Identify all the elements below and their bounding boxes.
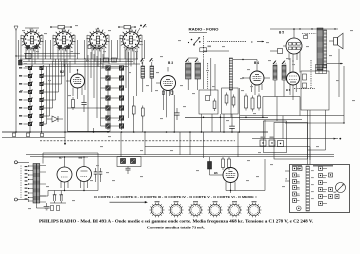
transformer taps bbox=[28, 165, 46, 202]
small comp right a bbox=[303, 74, 307, 80]
resistor mid 1 bbox=[132, 96, 135, 132]
label B5 bbox=[279, 31, 284, 35]
loudspeaker bbox=[329, 33, 343, 49]
svg-text:Corrente anodica totale 73 mA.: Corrente anodica totale 73 mA. bbox=[147, 226, 205, 230]
control box right sockets bbox=[329, 173, 340, 199]
label B4 bbox=[254, 61, 259, 65]
tone trimmer 1 bbox=[121, 159, 126, 164]
wire socket3 top bbox=[97, 28, 98, 32]
svg-text:PHILIPS RADIO - Mod. BI 493: PHILIPS RADIO - Mod. BI 493 A - Onde med… bbox=[39, 219, 313, 223]
label Tc bbox=[208, 46, 212, 48]
tube socket B3 top view bbox=[87, 29, 110, 52]
selector switch arm bbox=[188, 37, 201, 45]
wire B3 cathode down bbox=[164, 95, 175, 132]
svg-text:a.f: a.f bbox=[334, 191, 337, 194]
wire psu bottom bbox=[36, 203, 50, 208]
wire routing bus under sockets bbox=[20, 54, 140, 67]
lower bus segment bbox=[2, 132, 66, 145]
small comp psu a bbox=[51, 206, 54, 211]
IF coil L2 bbox=[195, 59, 201, 90]
pin connector socket3 a bbox=[88, 45, 91, 49]
rectifier tube B7 bbox=[57, 167, 72, 182]
gang dashed line bbox=[40, 140, 235, 142]
IF coil L3 bbox=[273, 61, 277, 97]
filter cap C2 bbox=[59, 191, 63, 204]
label B8 bbox=[79, 156, 83, 160]
wire selector down bbox=[200, 48, 229, 89]
mid long line bbox=[145, 147, 310, 160]
wires B3 pins bbox=[156, 67, 173, 97]
grid stopper B5 bbox=[270, 46, 286, 54]
mains switch dashed bbox=[20, 166, 22, 199]
resistor B6 left bbox=[208, 157, 224, 175]
oscillator trimmer column E bbox=[110, 66, 124, 131]
small comp psu b bbox=[57, 206, 60, 211]
wire B5 top bbox=[293, 28, 295, 38]
output transformer secondary bbox=[324, 30, 327, 68]
rectifier tube B8 bbox=[77, 167, 92, 182]
component bus gap b bbox=[27, 133, 30, 137]
svg-text:RADIO - FONO: RADIO - FONO bbox=[189, 28, 220, 32]
svg-text:a: a bbox=[286, 178, 288, 181]
control box divider bbox=[306, 166, 309, 211]
svg-text:F: F bbox=[251, 40, 253, 44]
arrow right bbox=[257, 41, 264, 43]
svg-text:B7: B7 bbox=[59, 156, 63, 160]
pin connector socket3 b bbox=[93, 45, 96, 49]
wires B7 B8 pins bbox=[61, 181, 88, 191]
resistor Kb bbox=[149, 58, 154, 92]
coil box outline bbox=[68, 108, 111, 131]
wafer switch S3 bbox=[188, 201, 203, 217]
wires B2 pins bbox=[66, 69, 82, 99]
control box middle sockets bbox=[319, 167, 328, 206]
coupling component above socket 4 bbox=[118, 25, 136, 31]
capacitor under B2 bbox=[81, 95, 86, 112]
component bus gap c bbox=[41, 133, 44, 136]
svg-text:B8: B8 bbox=[79, 156, 83, 160]
label B6 bbox=[214, 171, 218, 175]
value labels bbox=[20, 25, 355, 209]
mains terminal top bbox=[14, 161, 29, 164]
wafer switch S4 bbox=[208, 201, 223, 217]
IF coil L4 bbox=[282, 61, 286, 97]
tube socket B4 top view bbox=[120, 29, 143, 52]
supply line with arrow bbox=[252, 138, 341, 140]
oscillator trimmer column D bbox=[101, 66, 111, 131]
top bus right bbox=[270, 28, 338, 29]
capacitor near B3 bbox=[174, 108, 179, 120]
wires B6 pins bbox=[290, 84, 296, 100]
resistor B6 a bbox=[222, 157, 225, 171]
tone trimmer 2 bbox=[131, 159, 136, 164]
svg-text:B 4: B 4 bbox=[254, 61, 259, 65]
control box outline bbox=[290, 165, 350, 213]
control box tiny labels bbox=[297, 170, 326, 200]
bus mid bbox=[185, 117, 268, 119]
label af bbox=[334, 191, 337, 194]
switch contact left bbox=[19, 60, 23, 65]
tube B3 bbox=[161, 76, 176, 91]
resistor under B2 bbox=[72, 97, 75, 110]
label B3 bbox=[168, 61, 173, 65]
band switch column B with trimmers bbox=[40, 66, 44, 133]
small comp right b bbox=[303, 83, 307, 88]
coupling coil dotted vertical bbox=[310, 60, 312, 89]
wires B4 pins bbox=[242, 77, 270, 95]
resistor under B4 a bbox=[245, 94, 248, 111]
label B6 bbox=[286, 88, 291, 92]
tuning meter bbox=[336, 183, 346, 193]
wire IF2 down bbox=[230, 90, 232, 117]
component under socket3 a bbox=[104, 58, 109, 62]
power transformer bbox=[33, 164, 40, 204]
bus drop wires bbox=[121, 132, 238, 158]
HT loop wires bbox=[43, 153, 98, 191]
resistor B6 b bbox=[228, 157, 231, 171]
grid cap flag socket4 bbox=[137, 24, 146, 32]
IF coil core 2 bbox=[229, 58, 232, 90]
HT return wire bbox=[40, 190, 98, 196]
coil dotted B5 to transformer bbox=[302, 34, 317, 39]
resistor under B4 c bbox=[258, 94, 261, 111]
wire right vertical bbox=[285, 66, 345, 124]
filter cap C1 bbox=[53, 191, 57, 204]
control box knob bbox=[297, 206, 302, 211]
box G2 bbox=[222, 88, 239, 114]
caps near B8 bbox=[94, 168, 103, 182]
pickup box B bbox=[274, 123, 308, 160]
band switch column A with trimmers bbox=[19, 66, 33, 133]
feedback loop rect bbox=[301, 71, 329, 110]
output transformer primary bbox=[317, 28, 323, 70]
label F bbox=[251, 40, 253, 44]
tube B5 bbox=[286, 38, 302, 54]
wires B6 pins bbox=[226, 159, 265, 193]
pin connector socket3 c bbox=[98, 46, 101, 49]
pin blocks sockets bbox=[27, 46, 70, 49]
chassis bus bbox=[2, 131, 268, 133]
pickup terminal 3 bbox=[278, 141, 284, 147]
antenna bbox=[14, 26, 18, 132]
svg-text:B2: B2 bbox=[60, 70, 64, 74]
voltage selector taps bbox=[25, 166, 28, 200]
pickup terminal 2 bbox=[269, 140, 275, 146]
tone switch box bbox=[117, 157, 141, 167]
wire bundle to oscillator grid bbox=[91, 50, 137, 132]
tube socket B1 bbox=[21, 29, 44, 52]
coil vertical dotted bbox=[203, 36, 205, 59]
component bus gap a bbox=[13, 133, 16, 137]
ground symbol bbox=[44, 207, 50, 210]
wafer switch S2 bbox=[169, 201, 184, 217]
label RADIO-FONO bbox=[189, 28, 220, 33]
pickup terminal 1 bbox=[260, 140, 266, 146]
label B2 bbox=[60, 70, 64, 74]
diode detector bbox=[47, 116, 63, 122]
tone capacitor bbox=[126, 167, 131, 175]
svg-text:O CORTE I - O CORTE II - O COR: O CORTE I - O CORTE II - O CORTE III - O… bbox=[94, 195, 257, 199]
pin rect B3b bbox=[171, 91, 173, 94]
wafer caption bbox=[94, 195, 257, 199]
svg-text:B6: B6 bbox=[214, 171, 218, 175]
tube socket B2 top view bbox=[53, 29, 76, 52]
mains terminal bottom bbox=[14, 198, 29, 201]
wire antenna tap bbox=[15, 54, 31, 59]
ground wire bbox=[47, 203, 66, 207]
resistor Ka bbox=[140, 58, 145, 92]
wires B6 top bbox=[290, 58, 293, 73]
svg-text:B 3: B 3 bbox=[168, 61, 173, 65]
wire IF1 right bbox=[188, 58, 215, 96]
caption line 2 bbox=[147, 226, 205, 230]
capacitor mid-low bbox=[229, 123, 235, 133]
control box left stubs bbox=[285, 171, 290, 181]
svg-text:B 5: B 5 bbox=[279, 31, 284, 35]
IF coil L1 bbox=[185, 59, 191, 90]
wafer switch S6 bbox=[247, 201, 262, 217]
resistor under B4 b bbox=[251, 96, 254, 112]
coil horizontal dotted bbox=[208, 41, 247, 43]
wafer switch S5 bbox=[227, 201, 242, 217]
wire B4 top bbox=[233, 59, 257, 71]
resistor mid 2 bbox=[141, 106, 144, 133]
control box heading bbox=[292, 165, 333, 167]
wire socket1 top bbox=[25, 28, 39, 32]
pin rect B3a bbox=[162, 91, 164, 94]
tube B4 bbox=[250, 71, 264, 85]
control box left sockets bbox=[293, 167, 303, 203]
wires B5 pins bbox=[289, 52, 300, 73]
wires boxes down bbox=[202, 88, 240, 132]
pickup box A bbox=[264, 121, 287, 153]
label pickup bbox=[261, 137, 274, 138]
tube B2 bbox=[71, 74, 85, 88]
wire bundle mid-left bbox=[65, 55, 88, 132]
component under socket3 b bbox=[112, 58, 117, 62]
tube B6 bbox=[223, 168, 238, 183]
box G1 bbox=[199, 90, 218, 114]
label B7 bbox=[59, 156, 63, 160]
wire right mid bbox=[240, 97, 344, 139]
wires socket pins down bbox=[19, 35, 145, 67]
heater double bus bbox=[26, 155, 334, 157]
coupling coil dotted horizontal bbox=[294, 88, 315, 90]
tube B6 bbox=[287, 72, 300, 85]
wire loops down bbox=[308, 110, 326, 165]
coil core dashed bbox=[207, 63, 209, 90]
wafer arrow bbox=[110, 201, 148, 203]
transformer grid detail bbox=[316, 65, 327, 74]
coupling component above socket 2 bbox=[50, 25, 72, 31]
caption line 1 bbox=[39, 219, 313, 223]
wire staircase to columns bbox=[43, 59, 64, 124]
wire speaker down bbox=[327, 49, 343, 97]
wafer switch S1 bbox=[150, 201, 165, 217]
